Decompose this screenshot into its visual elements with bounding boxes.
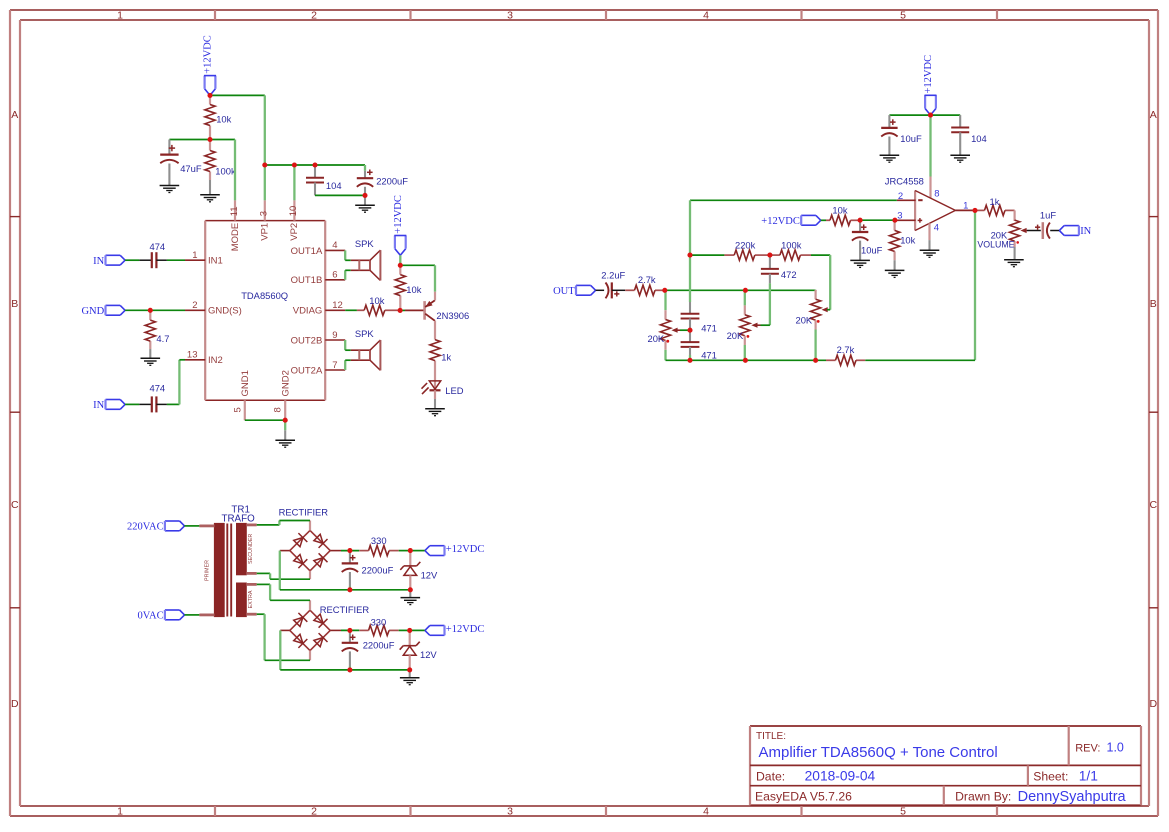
svg-text:D: D — [11, 698, 19, 710]
svg-text:DennySyahputra: DennySyahputra — [1018, 789, 1127, 805]
svg-text:Drawn By:: Drawn By: — [955, 790, 1011, 804]
svg-text:VDIAG: VDIAG — [293, 306, 323, 317]
svg-text:2.2uF: 2.2uF — [601, 270, 625, 281]
svg-text:2200uF: 2200uF — [363, 639, 395, 650]
svg-text:4: 4 — [934, 223, 939, 234]
svg-text:+12VDC: +12VDC — [446, 624, 485, 635]
svg-text:13: 13 — [187, 350, 198, 361]
svg-text:C: C — [11, 499, 19, 511]
svg-text:4: 4 — [332, 240, 337, 251]
svg-text:2: 2 — [192, 300, 197, 311]
svg-text:1uF: 1uF — [1040, 210, 1056, 221]
svg-text:GND1: GND1 — [240, 370, 251, 396]
svg-text:220k: 220k — [735, 239, 756, 250]
svg-text:3: 3 — [259, 211, 270, 216]
svg-text:10k: 10k — [369, 295, 384, 306]
svg-text:20K: 20K — [648, 333, 665, 344]
svg-text:C: C — [1150, 499, 1158, 511]
svg-text:10k: 10k — [406, 284, 421, 295]
svg-text:11: 11 — [229, 206, 240, 216]
svg-text:+12VDC: +12VDC — [203, 35, 214, 74]
svg-text:IN: IN — [1080, 226, 1091, 237]
svg-text:2: 2 — [311, 806, 317, 818]
svg-text:7: 7 — [332, 360, 337, 371]
svg-text:IN2: IN2 — [208, 355, 223, 366]
svg-text:471: 471 — [701, 350, 717, 361]
svg-text:A: A — [1150, 109, 1157, 121]
svg-text:PRIMER: PRIMER — [205, 560, 211, 581]
svg-text:+12VDC: +12VDC — [761, 216, 800, 227]
svg-text:8: 8 — [934, 188, 939, 199]
svg-text:OUT1A: OUT1A — [291, 246, 323, 257]
svg-text:47uF: 47uF — [180, 163, 202, 174]
svg-text:B: B — [1150, 298, 1157, 310]
svg-text:104: 104 — [971, 133, 987, 144]
svg-text:VOLUME: VOLUME — [977, 240, 1014, 250]
svg-text:4.7: 4.7 — [156, 333, 169, 344]
svg-text:12: 12 — [332, 300, 343, 311]
svg-text:6: 6 — [332, 270, 337, 281]
svg-text:REV:: REV: — [1075, 742, 1100, 754]
svg-text:3: 3 — [897, 211, 902, 222]
svg-text:3: 3 — [507, 806, 513, 818]
svg-text:2.7k: 2.7k — [638, 274, 656, 285]
svg-text:2: 2 — [311, 10, 317, 22]
svg-text:GND(S): GND(S) — [208, 306, 242, 317]
svg-text:VP2: VP2 — [289, 223, 300, 241]
svg-text:100k: 100k — [215, 166, 236, 177]
svg-text:10k: 10k — [832, 205, 847, 216]
svg-text:VP1: VP1 — [260, 223, 271, 241]
svg-text:RECTIFIER: RECTIFIER — [279, 506, 329, 517]
svg-text:GND: GND — [81, 306, 104, 317]
svg-text:5: 5 — [900, 10, 906, 22]
svg-text:D: D — [1150, 698, 1158, 710]
svg-text:474: 474 — [150, 241, 166, 252]
svg-text:JRC4558: JRC4558 — [885, 175, 924, 186]
svg-text:OUT2B: OUT2B — [291, 335, 323, 346]
svg-text:10uF: 10uF — [900, 133, 922, 144]
svg-text:330: 330 — [371, 617, 387, 628]
svg-text:10: 10 — [288, 206, 299, 217]
svg-text:IN1: IN1 — [208, 256, 223, 267]
svg-text:TDA8560Q: TDA8560Q — [241, 290, 288, 301]
svg-text:B: B — [11, 298, 18, 310]
svg-text:1: 1 — [963, 201, 968, 212]
svg-text:0VAC: 0VAC — [138, 611, 164, 622]
svg-text:471: 471 — [701, 322, 717, 333]
svg-text:+12VDC: +12VDC — [446, 544, 485, 555]
svg-text:IN: IN — [93, 400, 104, 411]
svg-text:IN: IN — [93, 256, 104, 267]
svg-text:OUT2A: OUT2A — [291, 365, 323, 376]
svg-text:10uF: 10uF — [861, 244, 883, 255]
svg-text:1k: 1k — [441, 352, 451, 363]
svg-text:MODE: MODE — [230, 223, 241, 252]
svg-text:220VAC: 220VAC — [127, 522, 164, 533]
svg-text:Date:: Date: — [756, 769, 785, 783]
svg-text:+12VDC: +12VDC — [393, 195, 404, 234]
svg-text:4: 4 — [703, 10, 709, 22]
svg-text:SECUNDER: SECUNDER — [248, 534, 254, 564]
svg-text:1: 1 — [117, 10, 123, 22]
svg-text:5: 5 — [232, 407, 243, 412]
svg-text:5: 5 — [900, 806, 906, 818]
svg-text:10k: 10k — [900, 235, 915, 246]
svg-text:1/1: 1/1 — [1079, 768, 1098, 783]
svg-text:LED: LED — [445, 385, 463, 396]
svg-text:OUT: OUT — [553, 286, 575, 297]
svg-text:GND2: GND2 — [281, 370, 292, 396]
svg-text:Amplifier TDA8560Q + Tone Cont: Amplifier TDA8560Q + Tone Control — [759, 744, 998, 761]
svg-text:20K: 20K — [796, 314, 813, 325]
svg-text:1.0: 1.0 — [1107, 741, 1124, 755]
svg-text:474: 474 — [150, 383, 166, 394]
svg-text:RECTIFIER: RECTIFIER — [320, 604, 370, 615]
svg-text:2200uF: 2200uF — [362, 565, 394, 576]
svg-text:EasyEDA V5.7.26: EasyEDA V5.7.26 — [755, 790, 852, 804]
svg-text:10k: 10k — [216, 114, 231, 125]
svg-text:2.7k: 2.7k — [837, 344, 855, 355]
svg-text:+12VDC: +12VDC — [923, 55, 934, 94]
svg-text:1k: 1k — [990, 196, 1000, 207]
svg-text:1: 1 — [192, 250, 197, 261]
svg-text:TRAFO: TRAFO — [222, 514, 256, 525]
svg-text:2200uF: 2200uF — [376, 176, 408, 187]
svg-text:SPK: SPK — [355, 238, 375, 249]
svg-text:330: 330 — [371, 535, 387, 546]
svg-text:4: 4 — [703, 806, 709, 818]
svg-text:8: 8 — [273, 407, 284, 412]
svg-text:OUT1B: OUT1B — [291, 275, 323, 286]
svg-text:3: 3 — [507, 10, 513, 22]
svg-text:9: 9 — [332, 330, 337, 341]
svg-text:12V: 12V — [420, 649, 437, 660]
svg-text:1: 1 — [117, 806, 123, 818]
svg-text:472: 472 — [781, 269, 797, 280]
svg-text:12V: 12V — [421, 569, 438, 580]
svg-text:SPK: SPK — [355, 328, 375, 339]
svg-text:100k: 100k — [781, 239, 802, 250]
svg-text:2: 2 — [898, 191, 903, 202]
svg-text:Sheet:: Sheet: — [1033, 769, 1068, 783]
svg-text:104: 104 — [326, 180, 342, 191]
svg-text:2N3906: 2N3906 — [436, 310, 469, 321]
svg-text:2018-09-04: 2018-09-04 — [805, 768, 876, 783]
svg-text:A: A — [11, 109, 18, 121]
svg-text:20K: 20K — [727, 330, 744, 341]
svg-text:EXTRA: EXTRA — [248, 590, 254, 608]
svg-text:TITLE:: TITLE: — [756, 731, 786, 742]
